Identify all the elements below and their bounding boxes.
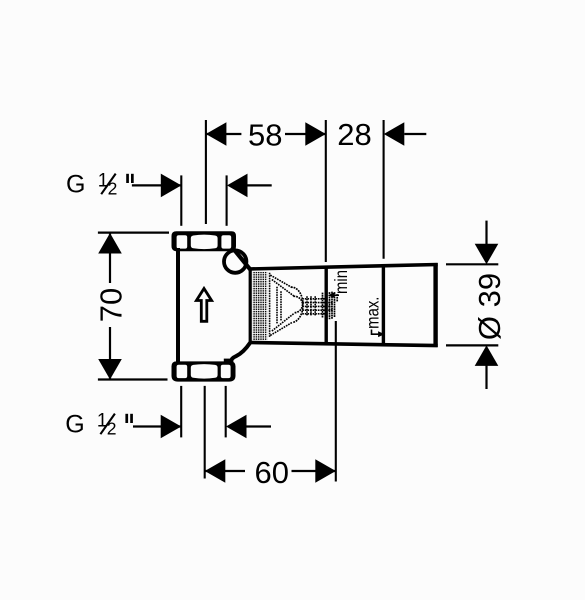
svg-text:2: 2 [108,179,118,199]
spindle funnel top [271,276,292,288]
cone/cap trapezoid top edge [249,265,438,270]
Ø39 arrow bottom [485,365,487,389]
valve body left edge [176,248,180,364]
spindle shaft rows [303,298,329,300]
stipple column [270,274,338,339]
60 right ext line (inside cone down) [335,321,337,482]
dimension G1/2 upper leader [132,184,181,186]
Ø39 top ext line [446,263,498,265]
dimension 60 line [205,470,245,472]
cap right edge [433,263,437,347]
svg-text:60: 60 [254,455,288,490]
svg-text:2: 2 [107,419,117,439]
extension line 28-right [383,120,385,259]
spindle end blob [322,294,324,319]
svg-text:max.: max. [364,297,383,329]
hex nut bottom [172,361,236,381]
Ø39 bottom ext line [446,344,498,346]
svg-text:58: 58 [248,117,282,152]
spindle shaft ticks [306,297,308,316]
svg-text:G: G [66,170,85,198]
bottom collar step [224,359,234,364]
G1/2 lower leader + arrows [133,425,181,427]
spindle bell inner [294,296,302,312]
bottom fillet transition [231,343,250,361]
G1/2 upper arrow right-outside [227,174,248,198]
dimension 58 arrow left [206,122,227,146]
svg-text:28: 28 [337,117,371,152]
Ø39 arrow top [485,221,487,245]
flange left edge [249,269,252,344]
dimension 70 top ext line [98,232,169,234]
max marker line [382,264,385,345]
flow direction arrow [196,289,211,322]
dimension 28 arrow right-outside [384,122,405,146]
svg-text:70: 70 [94,288,129,322]
dimension 70 arrow bottom [98,359,122,380]
outlet teardrop boss [224,250,246,272]
dimension 70 bottom ext line [98,378,168,380]
cone/cap trapezoid bottom edge [249,343,438,346]
G1/2 upper ext line right [226,175,228,225]
extension line 58-right / min [325,120,327,262]
outlet diagonal [233,249,251,271]
G1/2 upper arrow left-outside [161,174,182,198]
extension line 58-left [205,120,207,224]
svg-text:min: min [332,270,351,294]
bottom ext stub G1/2 right [225,386,227,438]
G1/2 upper ext line left [180,175,182,225]
hex nut top [172,231,237,251]
dimension 58 line [206,133,242,135]
max leader [372,330,379,335]
dimension 60 arrow left [205,459,226,483]
spindle bell outer [292,287,303,322]
min leader [334,294,339,296]
dimension 58 arrow right [305,122,326,146]
dimension 70 arrow top [98,233,122,254]
spindle funnel bottom [271,323,292,336]
bottom ext stub 60 left [204,386,206,479]
svg-text:Ø 39: Ø 39 [472,273,507,340]
knurled flange stipple band [252,272,267,341]
svg-text:G: G [65,410,84,438]
dimension 70 line [109,233,111,283]
spindle inner steps [276,288,278,325]
dimension 60 arrow right [315,459,336,483]
min marker line [325,266,328,343]
bottom ext stub G1/2 left [180,386,182,438]
